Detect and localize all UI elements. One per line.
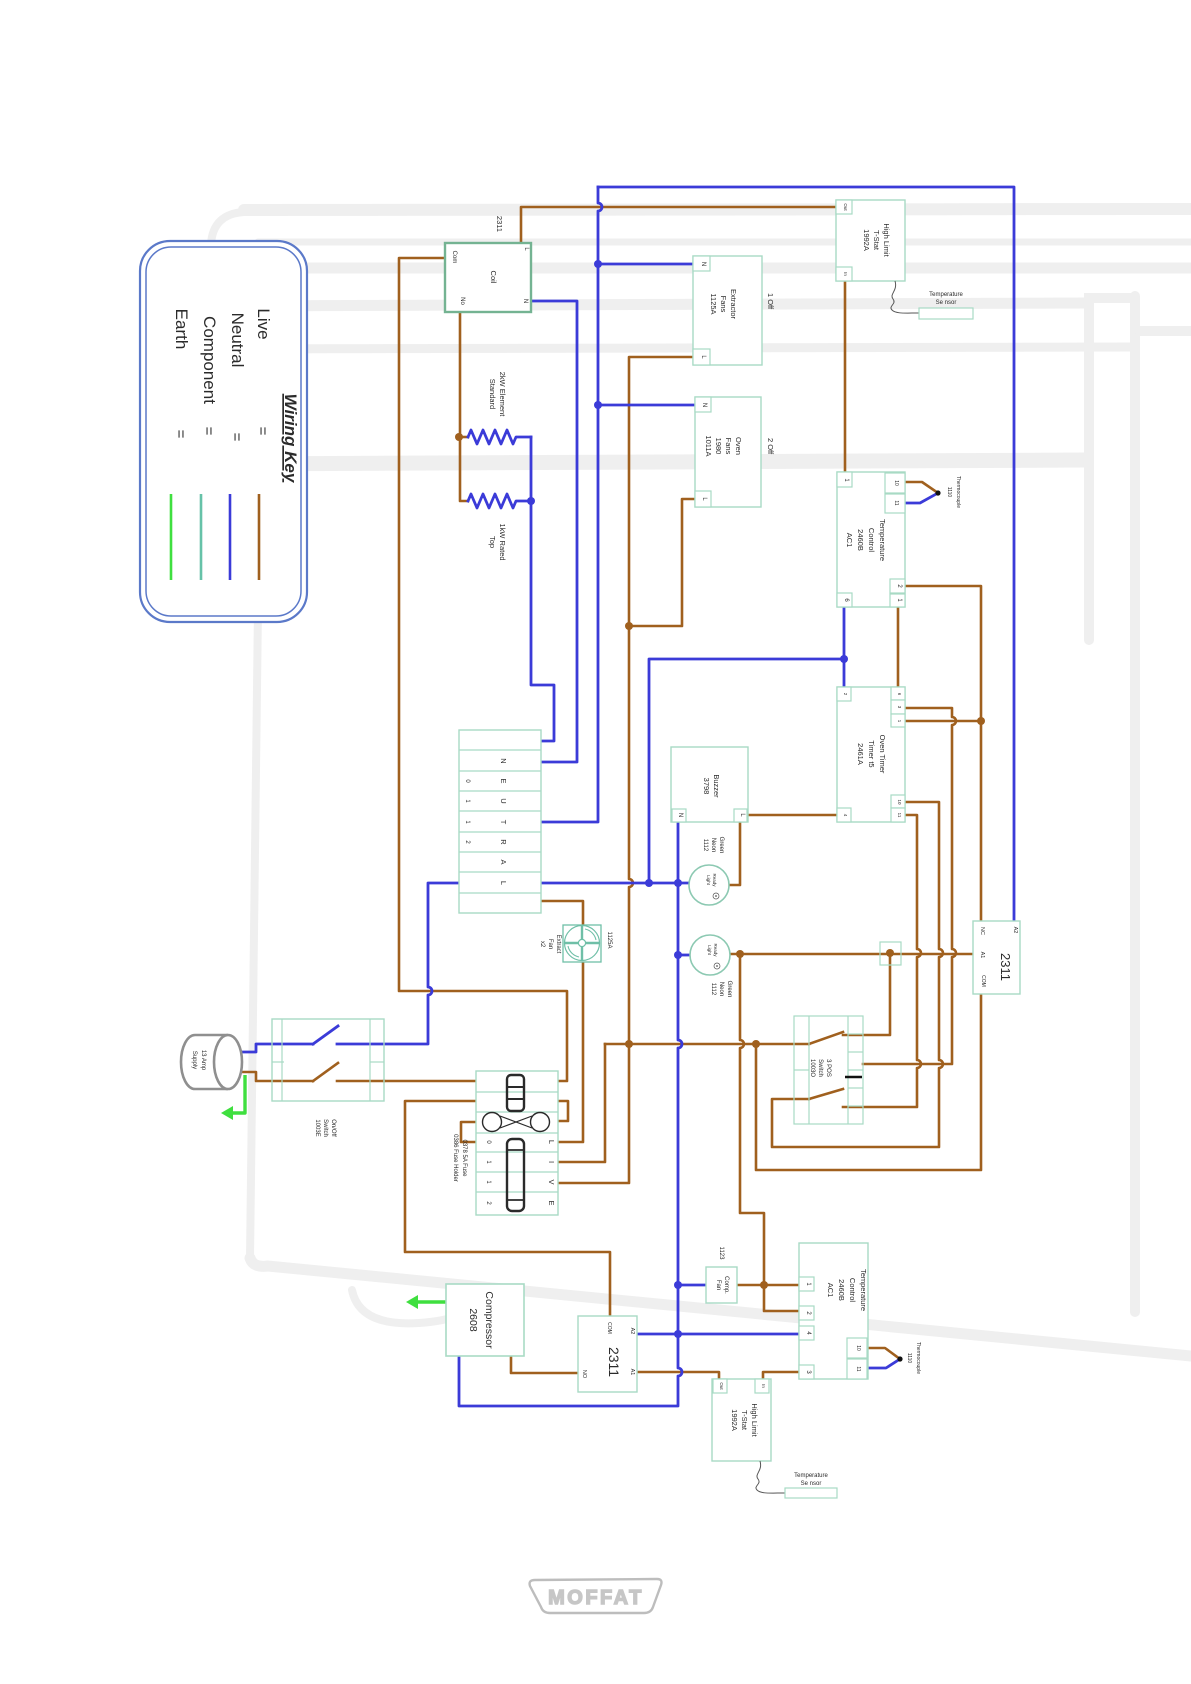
wire neutral branch to L row: [649, 659, 844, 883]
extract fan symbol: [563, 925, 601, 962]
junction neutral timer feed: [840, 655, 848, 663]
switch arm1 blade: [809, 1032, 843, 1044]
svg-text:Earth: Earth: [172, 309, 191, 350]
svg-text:U: U: [499, 798, 508, 803]
svg-text:=: =: [254, 427, 271, 436]
svg-text:2 Off: 2 Off: [766, 438, 775, 455]
svg-text:Compressor: Compressor: [483, 1291, 495, 1349]
faint bottom swoosh: [250, 1258, 1191, 1356]
junction neon2 live: [736, 950, 744, 958]
svg-text:0378 5A Fuse: 0378 5A Fuse: [461, 1139, 467, 1177]
wire live comp-fan to tempctrl2 pin1: [737, 1284, 799, 1287]
key line earth: [170, 494, 173, 580]
svg-text:10: 10: [897, 799, 902, 805]
svg-text:Temperature: Temperature: [878, 519, 887, 561]
wire thermocouple2 brown lead: [867, 1348, 900, 1359]
svg-text:Neon: Neon: [710, 838, 716, 852]
wire live relay2 NO to compressor: [511, 1356, 578, 1373]
wire neutral buzzer N trunk to compressor: [459, 822, 682, 1406]
wire neutral branch comp-fan: [678, 1284, 706, 1287]
svg-text:10: 10: [893, 480, 899, 486]
switch off tick: [845, 1076, 862, 1079]
compressor 2608: [446, 1284, 524, 1356]
resistor 2kW element: [468, 430, 531, 444]
svg-text:NO: NO: [581, 1370, 587, 1379]
svg-text:N: N: [522, 299, 528, 303]
fuse long cartridge: [507, 1139, 524, 1211]
faint appliance top corner arc: [211, 212, 244, 600]
svg-text:Extractor: Extractor: [729, 289, 738, 320]
svg-text:Switch: Switch: [817, 1059, 823, 1077]
wire live contactor L to high-limit1 Out: [521, 207, 836, 243]
svg-text:COM: COM: [606, 1322, 612, 1334]
svg-text:13 Amp: 13 Amp: [200, 1050, 206, 1071]
wire neutral elements riser to block: [531, 437, 554, 741]
svg-text:2608: 2608: [467, 1308, 479, 1332]
wire thermocouple1 brown lead: [905, 482, 938, 493]
ready light neon 1: [689, 865, 729, 905]
faint appliance right stub: [1140, 326, 1191, 336]
wire live neon2 junction down to high-limit2 In: [740, 954, 799, 1311]
svg-text:Fans: Fans: [719, 296, 728, 313]
key line component: [200, 494, 203, 580]
wire live high-limit1 In to tempctrl1 pin1: [844, 281, 847, 472]
svg-text:2311: 2311: [606, 1347, 622, 1377]
svg-text:1980: 1980: [714, 438, 723, 455]
wire live onoff switch output: [337, 1080, 384, 1083]
svg-text:1110: 1110: [906, 1353, 912, 1364]
svg-text:AC1: AC1: [845, 533, 854, 548]
svg-text:1992A: 1992A: [862, 229, 871, 251]
svg-text:Fan: Fan: [547, 939, 553, 949]
wire live supply to onoff switch: [240, 1072, 313, 1081]
junction comp-fan row: [760, 1281, 768, 1289]
svg-text:=: =: [172, 430, 189, 439]
fuse clip spool: [483, 1113, 502, 1132]
wire live timer pin10 to switch arm2 stub: [772, 802, 943, 1147]
wire neutral top rail to relay A2: [598, 187, 1014, 922]
svg-text:T: T: [499, 820, 508, 825]
buzzer 3798: [671, 747, 748, 822]
svg-text:In: In: [761, 1384, 766, 1388]
svg-text:1003E: 1003E: [314, 1119, 320, 1136]
live tap box: [880, 942, 901, 965]
svg-text:Green: Green: [726, 981, 732, 998]
svg-text:3 POS: 3 POS: [825, 1059, 831, 1077]
svg-text:1kW Rated: 1kW Rated: [498, 523, 507, 560]
wire live neon2 to relay A1 row: [730, 953, 974, 956]
wire live contactor Com to fuse row1 riser: [399, 258, 567, 1081]
onoff switch live blade: [313, 1063, 338, 1081]
svg-text:High Limit: High Limit: [882, 223, 891, 257]
wire earth compressor: [416, 1300, 446, 1303]
svg-text:Standard: Standard: [488, 379, 497, 409]
svg-text:Se nsor: Se nsor: [801, 1481, 822, 1487]
wire live timer pin11 to switch row2: [843, 815, 921, 1107]
junction live row x629: [625, 1040, 633, 1048]
svg-text:11: 11: [897, 813, 902, 818]
svg-text:1011A: 1011A: [704, 435, 713, 456]
svg-text:Control: Control: [848, 1278, 857, 1303]
resistor 1kW element: [468, 494, 531, 508]
svg-text:Light: Light: [706, 875, 711, 886]
wire live extractor L down to fuse V row: [558, 357, 693, 1183]
svg-text:1003O: 1003O: [809, 1059, 815, 1077]
svg-text:11: 11: [893, 500, 899, 505]
svg-text:1110: 1110: [946, 487, 952, 498]
svg-text:Extract: Extract: [555, 935, 561, 954]
faint slanted left line: [250, 282, 262, 1258]
svg-text:Ready: Ready: [713, 943, 718, 957]
wire neutral main vertical to block T: [541, 187, 602, 822]
svg-text:Temperature: Temperature: [794, 1473, 828, 1479]
wire thermocouple2 blue lead: [867, 1359, 900, 1368]
wire live relay2 A1 to high-limit2 Out: [637, 1372, 719, 1379]
svg-text:Com: Com: [451, 251, 457, 264]
wire thermocouple1 blue lead: [905, 493, 938, 503]
svg-text:Oven Timer: Oven Timer: [878, 735, 887, 774]
wire live neutral-block bottom to extract fan: [541, 901, 583, 925]
fuse small cartridge: [507, 1075, 524, 1111]
faint dish arc: [352, 1290, 472, 1323]
wire neutral branch neon2: [678, 954, 690, 957]
svg-text:=: =: [200, 427, 217, 436]
svg-text:AC1: AC1: [826, 1283, 835, 1298]
wire live fuse row3-row4 left bracket: [461, 1122, 476, 1142]
svg-text:A1: A1: [629, 1369, 635, 1376]
svg-text:x2: x2: [539, 941, 545, 948]
wire live fuse row2-row3 right bracket: [558, 1101, 568, 1121]
svg-text:Supply: Supply: [191, 1051, 197, 1069]
svg-text:R: R: [499, 839, 508, 845]
svg-text:E: E: [499, 778, 508, 783]
svg-text:Out: Out: [719, 1382, 724, 1390]
svg-text:A: A: [499, 859, 508, 864]
svg-text:Coil: Coil: [489, 271, 498, 284]
svg-text:L: L: [499, 881, 508, 885]
relay 2311 lower: [578, 1316, 637, 1392]
wire live fuse row2 to relay2 COM: [405, 1101, 610, 1316]
key line live: [258, 494, 261, 580]
junction neutral elements: [527, 497, 535, 505]
junction timer pin1: [977, 717, 985, 725]
svg-text:1992A: 1992A: [730, 1409, 739, 1431]
thermocouple1 tip: [935, 490, 940, 495]
svg-text:No: No: [459, 297, 465, 305]
wire live tempctrl1 pin2 to relay NC: [905, 586, 981, 922]
svg-text:I: I: [547, 1161, 556, 1163]
faint appliance band 4: [216, 303, 1088, 306]
wire live contactor No to elements: [460, 312, 468, 501]
wire neutral contactor N to block: [531, 301, 577, 762]
svg-text:Neon: Neon: [718, 982, 724, 996]
ready light neon 2: [690, 935, 730, 975]
wire live timer pin1 to junction: [905, 720, 981, 723]
earth arrow compressor: [406, 1295, 418, 1309]
wire neutral block L row to neon1: [541, 882, 689, 885]
svg-text:1112: 1112: [710, 983, 716, 996]
faint appliance top band 1: [244, 209, 1191, 210]
svg-text:Component: Component: [200, 316, 219, 404]
svg-text:N: N: [701, 403, 707, 407]
svg-text:1123: 1123: [718, 1247, 724, 1261]
svg-text:A1: A1: [979, 952, 985, 959]
faint appliance band 6: [216, 460, 1085, 464]
svg-text:Temperature: Temperature: [859, 1269, 868, 1311]
svg-text:Fan: Fan: [715, 1280, 721, 1290]
junction neutral L row a: [645, 879, 653, 887]
wire neutral relay2 A2 row to tempctrl2 pin4: [637, 1333, 799, 1336]
svg-text:Thermocouple: Thermocouple: [915, 1342, 921, 1374]
svg-text:1112: 1112: [702, 839, 708, 852]
junction neutral oven-fans: [594, 401, 602, 409]
svg-text:2460B: 2460B: [837, 1279, 846, 1301]
svg-text:Oven: Oven: [734, 437, 743, 455]
high limit t-stat 1: [836, 200, 905, 281]
wire live buzzer L down to neon1: [729, 822, 740, 885]
svg-text:E: E: [547, 1200, 556, 1205]
svg-text:Thermocouple: Thermocouple: [955, 476, 961, 508]
faint appliance band 5: [216, 347, 1133, 349]
svg-text:A2: A2: [629, 1328, 635, 1335]
svg-text:11: 11: [855, 1366, 861, 1371]
temperature control 2: [799, 1243, 868, 1379]
junction neutral neon2: [674, 951, 682, 959]
wire live fuse row I riser: [558, 1044, 605, 1162]
svg-text:In: In: [843, 272, 848, 276]
wire live timer pin3 to switch row3: [863, 708, 956, 1064]
svg-text:Timer t5: Timer t5: [867, 740, 876, 767]
svg-text:1125A: 1125A: [606, 932, 612, 949]
faint appliance top band 2: [258, 239, 1191, 246]
svg-text:2311: 2311: [998, 953, 1013, 981]
wire live main row to 3pos switch: [605, 1043, 809, 1046]
wire live tempctrl1 bottom to timer pin6: [897, 607, 900, 687]
svg-text:Buzzer: Buzzer: [712, 774, 721, 798]
neutral terminal block: [459, 730, 541, 913]
svg-text:Fans: Fans: [724, 438, 733, 455]
wiring key box: [140, 241, 307, 622]
temperature sensor 1: [891, 281, 919, 313]
extractor fans box: [693, 256, 762, 365]
junction element R1 brown: [455, 433, 463, 441]
svg-text:Ready: Ready: [712, 873, 717, 887]
svg-text:=: =: [228, 433, 245, 442]
3 pos switch 1003O: [794, 1016, 863, 1124]
oven timer: [837, 687, 905, 822]
svg-text:High Limit: High Limit: [750, 1403, 759, 1437]
fuse holder block: [476, 1071, 558, 1215]
svg-text:Temperature: Temperature: [929, 292, 963, 298]
wire live tempctrl2 pin3 to high-limit2 In: [763, 1372, 799, 1379]
temperature control 1: [837, 472, 905, 607]
wire live buzzer L to timer pin4: [747, 814, 837, 817]
svg-text:NC: NC: [979, 927, 985, 935]
wire neutral branch oven-fans N: [598, 404, 711, 407]
svg-text:2311: 2311: [495, 216, 504, 232]
onoff switch neutral blade: [313, 1026, 338, 1044]
comp fan box: [706, 1267, 737, 1303]
junction live row x756: [752, 1040, 760, 1048]
svg-text:L: L: [547, 1140, 556, 1144]
svg-text:N: N: [677, 813, 683, 817]
junction neutral A2 row: [674, 1330, 682, 1338]
wire live junction to relay COM: [756, 994, 981, 1170]
supply cylinder: [195, 1035, 228, 1089]
onoff switch 1003E: [272, 1019, 384, 1101]
junction neutral extractor: [594, 260, 602, 268]
wire earth supply: [231, 1075, 245, 1113]
wire live onoff switch to fuse row1: [384, 1080, 476, 1083]
wire element R1 left tap: [460, 436, 468, 439]
svg-text:Switch: Switch: [322, 1119, 328, 1137]
switch arm2 blade: [809, 1089, 843, 1099]
moffat logo trapezoid: [530, 1579, 662, 1613]
svg-text:A2: A2: [1012, 927, 1018, 934]
contactor coil 2311: [445, 243, 531, 312]
svg-text:1 Off: 1 Off: [766, 293, 775, 310]
junction tap box: [886, 949, 894, 957]
svg-text:T-Stat: T-Stat: [740, 1410, 749, 1431]
faint appliance band 3: [214, 263, 1191, 274]
junction fans live: [625, 622, 633, 630]
junction neutral L row b: [674, 879, 682, 887]
svg-text:N: N: [499, 758, 508, 763]
wire neutral tempctrl1 pin6 to timer: [843, 607, 846, 687]
high limit t-stat 2: [712, 1379, 771, 1461]
thermocouple2 tip: [897, 1356, 902, 1361]
svg-text:On/Off: On/Off: [330, 1119, 336, 1137]
svg-text:Live: Live: [254, 308, 273, 339]
key line neutral: [229, 494, 232, 580]
wire live extract fan to fuse row L: [558, 962, 583, 1142]
svg-text:Out: Out: [843, 203, 848, 211]
faint appliance right outer vertical: [1130, 296, 1140, 1312]
svg-text:MOFFAT: MOFFAT: [548, 1587, 644, 1609]
svg-text:2461A: 2461A: [856, 743, 865, 765]
wire neutral branch extractor N: [598, 263, 710, 266]
wire live tap box down to switch arm1 row: [843, 953, 890, 1035]
svg-text:3798: 3798: [702, 778, 711, 795]
svg-text:Light: Light: [707, 945, 712, 956]
svg-text:0386 Fuse Holder: 0386 Fuse Holder: [452, 1134, 458, 1182]
svg-text:N: N: [700, 262, 706, 266]
svg-text:Top: Top: [488, 536, 497, 548]
svg-text:Green: Green: [718, 837, 724, 854]
svg-text:T-Stat: T-Stat: [872, 230, 881, 251]
wire neutral onoff switch to block L row: [337, 883, 459, 1044]
svg-text:Se nsor: Se nsor: [936, 300, 957, 306]
wire live oven-fans L to junction: [629, 499, 695, 626]
svg-text:Neutral: Neutral: [228, 313, 247, 368]
svg-text:Wiring Key: Wiring Key: [281, 394, 300, 484]
svg-text:2460B: 2460B: [856, 529, 865, 551]
faint appliance right inner vertical: [1089, 298, 1133, 640]
svg-text:10: 10: [855, 1345, 861, 1351]
svg-text:Comp.: Comp.: [723, 1276, 729, 1294]
earth arrow supply: [221, 1106, 233, 1120]
svg-text:2kW Element: 2kW Element: [498, 372, 507, 418]
svg-text:COM: COM: [980, 975, 986, 987]
svg-text:Control: Control: [867, 528, 876, 553]
junction neutral comp-fan: [674, 1281, 682, 1289]
temperature sensor 2: [756, 1461, 785, 1493]
oven fans box: [695, 397, 761, 507]
svg-text:1125A: 1125A: [709, 293, 718, 314]
svg-text:V: V: [547, 1179, 556, 1184]
relay 2311 upper: [973, 921, 1020, 994]
wire neutral supply to onoff switch: [243, 1044, 313, 1052]
